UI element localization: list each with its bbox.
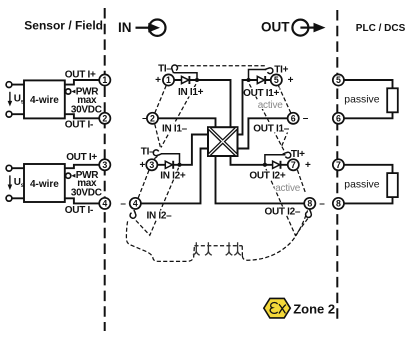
PWR terminal circle block 1 xyxy=(66,89,71,94)
svg-text:7: 7 xyxy=(336,160,341,170)
svg-text:–: – xyxy=(303,113,309,124)
module terminal 5 xyxy=(271,74,282,85)
DIP switch 3 xyxy=(226,242,233,255)
svg-text:IN I2+: IN I2+ xyxy=(160,171,186,182)
dashed outline terminal5 to terminal6 xyxy=(279,86,291,113)
module housing bottom dashed outline right xyxy=(242,210,307,260)
PLC terminal 6 xyxy=(333,113,344,124)
wire open terminals to 4-wire box 2 xyxy=(12,168,24,198)
svg-text:passive: passive xyxy=(344,179,379,190)
diode channel 2 output xyxy=(273,161,280,168)
module terminal 4 xyxy=(130,198,141,209)
PLC terminal 7 xyxy=(333,159,344,170)
svg-text:IN I1–: IN I1– xyxy=(162,123,188,134)
DIP switch 1 xyxy=(193,242,200,255)
wire crossbar to terminal5 diode xyxy=(238,80,271,135)
node IN I1+ junction xyxy=(195,78,199,82)
test socket TI- channel 2 xyxy=(153,150,161,156)
module terminal 8 xyxy=(304,198,315,209)
diode channel 2 input xyxy=(165,161,172,168)
dashed outline TI- socket ch2 to terminal3 xyxy=(154,156,157,159)
resistor load 1 xyxy=(387,88,398,112)
svg-text:6: 6 xyxy=(291,113,296,123)
dashed leader OUT I1+ node to TI+ socket ch2 xyxy=(249,84,284,150)
dashed outline terminal7 to terminal8 xyxy=(297,170,305,194)
svg-text:2: 2 xyxy=(150,113,155,123)
DIP switch 2 xyxy=(205,242,212,255)
test socket TI- channel 1 xyxy=(172,65,178,73)
svg-text:+: + xyxy=(155,75,161,86)
voltage arrow Us source 1 xyxy=(9,92,11,103)
separator line PLC side xyxy=(336,10,338,321)
svg-text:OUT I+: OUT I+ xyxy=(66,152,97,163)
wire TI- socket ch2 to IN I2+ node xyxy=(161,154,180,165)
dashed leader IN I1+ node to TI- socket ch2 xyxy=(161,84,196,147)
Ex hexagon symbol xyxy=(264,298,291,318)
wire TI+ socket to OUT I1+ node xyxy=(249,70,267,81)
sensor source 2: open terminal bottom xyxy=(6,195,12,201)
svg-text:passive: passive xyxy=(344,95,379,106)
wire box1 to terminal 2 xyxy=(65,114,99,118)
wire terminal8 to crossbar xyxy=(216,156,305,203)
wire box2 to terminal 4 xyxy=(65,198,99,203)
svg-text:–: – xyxy=(319,198,325,209)
svg-text:4-wire: 4-wire xyxy=(30,179,59,190)
separator line sensor/field side xyxy=(104,8,106,331)
svg-text:–: – xyxy=(120,198,126,209)
OUT symbol arrow xyxy=(300,27,314,29)
module terminal 1 xyxy=(163,74,174,85)
svg-text:TI–: TI– xyxy=(158,63,172,74)
sensor source 2: open terminal top xyxy=(6,165,12,171)
field terminal 3 xyxy=(99,159,110,170)
module housing bottom dashed switch baseline xyxy=(194,246,242,256)
wire crossbar to terminal 6 xyxy=(238,118,288,148)
module housing bottom dashed outline left xyxy=(126,221,194,261)
svg-text:5: 5 xyxy=(274,75,279,85)
crossbar switch box xyxy=(208,127,238,156)
svg-text:+: + xyxy=(140,160,146,171)
DIP switch 4 xyxy=(234,242,241,255)
svg-text:1: 1 xyxy=(166,75,171,85)
wire terminal4 to crossbar xyxy=(141,149,208,204)
PLC terminal 5 xyxy=(333,74,344,85)
svg-text:3: 3 xyxy=(149,160,154,170)
svg-text:+: + xyxy=(288,75,294,86)
svg-text:IN I2–: IN I2– xyxy=(147,211,173,222)
svg-text:7: 7 xyxy=(291,160,296,170)
svg-text:active: active xyxy=(258,100,284,111)
wire box2 to terminal 3 xyxy=(65,165,99,168)
svg-text:8: 8 xyxy=(336,198,341,208)
test socket TI+ channel 1 xyxy=(265,68,273,74)
svg-text:8: 8 xyxy=(307,198,312,208)
diode channel 1 output xyxy=(257,76,264,83)
dashed outline terminal2 to TI- socket ch2 xyxy=(155,124,161,147)
module housing top dashed line xyxy=(178,65,267,67)
sensor source 1: open terminal top xyxy=(6,82,12,88)
node IN I2+ junction xyxy=(177,163,181,167)
PLC terminal 8 xyxy=(333,198,344,209)
PWR leader arrow block 2 xyxy=(71,174,75,178)
svg-text:5: 5 xyxy=(336,75,341,85)
dashed outline terminal6 to TI+ socket ch2 xyxy=(282,124,291,145)
IN symbol circle xyxy=(149,20,165,36)
svg-text:OUT I+: OUT I+ xyxy=(65,70,96,81)
node OUT I1+ junction xyxy=(246,78,250,82)
field terminal 2 xyxy=(99,113,110,124)
OUT symbol circle xyxy=(292,20,308,36)
wire terminal1 diode to crossbar xyxy=(174,80,230,127)
svg-text:Sensor / Field: Sensor / Field xyxy=(24,19,103,33)
svg-text:active: active xyxy=(275,183,301,194)
svg-text:+: + xyxy=(305,160,311,171)
module terminal 6 xyxy=(288,113,299,124)
svg-text:OUT I-: OUT I- xyxy=(65,205,93,216)
wire PLC loop 2 xyxy=(344,165,392,204)
svg-text:4: 4 xyxy=(102,198,107,208)
node OUT I2+ junction xyxy=(263,163,267,167)
field terminal 1 xyxy=(99,74,110,85)
module terminal 2 xyxy=(147,113,158,124)
svg-text:IN: IN xyxy=(118,20,132,35)
wire TI- socket to IN I1+ node xyxy=(174,73,197,80)
wire PLC loop 1 xyxy=(344,80,392,118)
dashed outline terminal3 to terminal4 xyxy=(138,170,149,198)
test socket below terminal 4 xyxy=(130,210,136,218)
wire terminal3 diode to crossbar xyxy=(157,135,208,165)
sensor source 1: open terminal bottom xyxy=(6,111,12,117)
svg-text:30VDC: 30VDC xyxy=(71,104,102,115)
svg-text:4-wire: 4-wire xyxy=(30,95,59,106)
wire box1 to terminal 1 xyxy=(65,80,99,85)
wire crossbar to terminal7 diode xyxy=(231,156,288,165)
test socket below terminal 8 xyxy=(306,209,312,217)
IN symbol arrow xyxy=(136,27,151,29)
svg-text:1: 1 xyxy=(102,75,107,85)
svg-text:OUT I2–: OUT I2– xyxy=(265,207,301,218)
svg-text:4: 4 xyxy=(133,198,138,208)
svg-text:3: 3 xyxy=(102,160,107,170)
svg-text:2: 2 xyxy=(102,113,107,123)
dashed leader IN I2+ node to test socket below terminal4 xyxy=(134,168,178,236)
module terminal 3 xyxy=(146,159,157,170)
svg-text:Zone 2: Zone 2 xyxy=(293,302,335,317)
module terminal 7 xyxy=(288,159,299,170)
label backgrounds xyxy=(146,87,302,220)
svg-text:OUT I-: OUT I- xyxy=(65,120,93,131)
4-wire transmitter box 1 xyxy=(24,80,65,118)
svg-text:TI+: TI+ xyxy=(291,149,305,160)
svg-text:IN I1+: IN I1+ xyxy=(178,87,204,98)
diode channel 1 input xyxy=(182,76,189,83)
svg-text:OUT: OUT xyxy=(261,20,290,35)
svg-text:30VDC: 30VDC xyxy=(71,187,102,198)
voltage arrow Us source 2 xyxy=(9,175,11,186)
svg-text:OUT I1+: OUT I1+ xyxy=(243,88,279,99)
4-wire transmitter box 2 xyxy=(24,164,65,202)
svg-text:OUT I2+: OUT I2+ xyxy=(249,171,285,182)
wire terminal2 to crossbar xyxy=(158,118,215,127)
PWR terminal circle block 2 xyxy=(66,173,71,178)
svg-text:PLC / DCS: PLC / DCS xyxy=(356,23,406,34)
field terminal 4 xyxy=(99,198,110,209)
PWR leader arrow block 1 xyxy=(71,90,75,94)
wire TI+ socket ch2 to OUT I2+ node xyxy=(265,155,286,165)
svg-text:6: 6 xyxy=(336,113,341,123)
svg-text:OUT I1–: OUT I1– xyxy=(253,124,289,135)
test socket TI+ channel 2 xyxy=(283,152,291,158)
resistor load 2 xyxy=(387,173,398,197)
dashed outline terminal1 to terminal2 xyxy=(155,86,166,114)
wire open terminals to 4-wire box 1 xyxy=(12,85,24,115)
dashed leader OUT I2+ node to test socket below terminal8 xyxy=(266,169,308,235)
